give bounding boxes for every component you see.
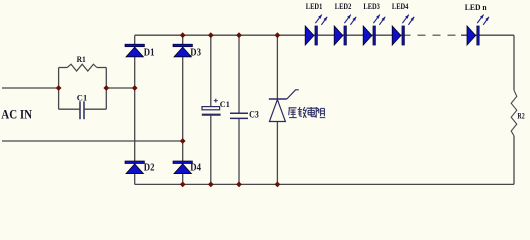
wire: right edge upper — [513, 35, 515, 90]
svg-text:R1: R1 — [77, 54, 86, 64]
wire: block to bridge — [106, 87, 134, 89]
junction bot D4 — [180, 182, 186, 188]
svg-text:LED3: LED3 — [363, 2, 380, 11]
junction bot C3 — [236, 182, 242, 188]
svg-text:LED2: LED2 — [335, 2, 352, 11]
capacitor C1 electrolytic — [202, 99, 221, 115]
wire: RC block top branch right — [97, 67, 106, 69]
svg-text:D2: D2 — [144, 163, 155, 174]
LED LED3 — [363, 15, 385, 45]
junction rail C1 — [208, 32, 214, 38]
wire: RC block bottom branch right — [85, 108, 107, 110]
wire: C3 column — [238, 35, 240, 184]
diode D2 — [125, 161, 144, 174]
wire: D1/D2 column — [134, 35, 136, 184]
svg-text:D4: D4 — [190, 163, 201, 174]
svg-text:C3: C3 — [249, 110, 259, 120]
diode D1 — [125, 44, 144, 57]
svg-text:LED1: LED1 — [306, 2, 323, 11]
resistor R2 — [511, 90, 517, 136]
wire: lower AC input — [2, 140, 183, 142]
junction bot RV — [275, 182, 281, 188]
svg-text:AC IN: AC IN — [1, 107, 32, 121]
wire: dashed rail segment — [403, 34, 468, 36]
LED LED4 — [392, 15, 414, 45]
svg-text:D1: D1 — [144, 47, 155, 58]
junction rail C3 — [236, 32, 242, 38]
svg-text:D3: D3 — [190, 47, 201, 58]
wire: top rail right — [461, 34, 514, 36]
LED LED n — [467, 15, 489, 45]
junction rail D3 — [180, 32, 186, 38]
junction bridge ac2 — [180, 138, 186, 144]
capacitor C1 (parallel with R1) — [79, 101, 81, 119]
resistor R1 — [67, 64, 97, 71]
junction bridge ac1 — [132, 85, 138, 91]
wire: RC block top branch — [59, 67, 68, 69]
junction block left — [56, 85, 62, 91]
label varistor chinese text — [289, 107, 326, 118]
diode D4 — [173, 161, 192, 174]
wire: bottom rail — [135, 183, 514, 185]
diode D3 — [173, 44, 192, 57]
LED LED1 — [305, 15, 327, 45]
wire: C1 column — [210, 35, 212, 184]
capacitor C3 — [230, 113, 248, 118]
wire: RC block bottom branch left — [59, 108, 80, 110]
svg-text:C1: C1 — [77, 92, 87, 102]
wire: RC block left edge — [58, 68, 60, 110]
wire: varistor column — [276, 35, 278, 184]
svg-text:LED n: LED n — [465, 3, 487, 12]
junction rail RV — [275, 32, 281, 38]
LED LED2 — [334, 15, 356, 45]
wire: RC block right edge — [105, 68, 107, 110]
wire: right edge lower — [513, 136, 515, 185]
junction block right — [103, 85, 109, 91]
wire: D3/D4 column — [182, 35, 184, 184]
varistor RV (zener-like symbol) — [269, 90, 299, 122]
wire: upper AC input — [2, 87, 59, 89]
wire: top rail — [135, 34, 403, 36]
junction bot C1 — [208, 182, 214, 188]
svg-text:C1: C1 — [220, 99, 230, 109]
svg-text:R2: R2 — [517, 112, 524, 121]
svg-text:LED4: LED4 — [392, 2, 409, 11]
